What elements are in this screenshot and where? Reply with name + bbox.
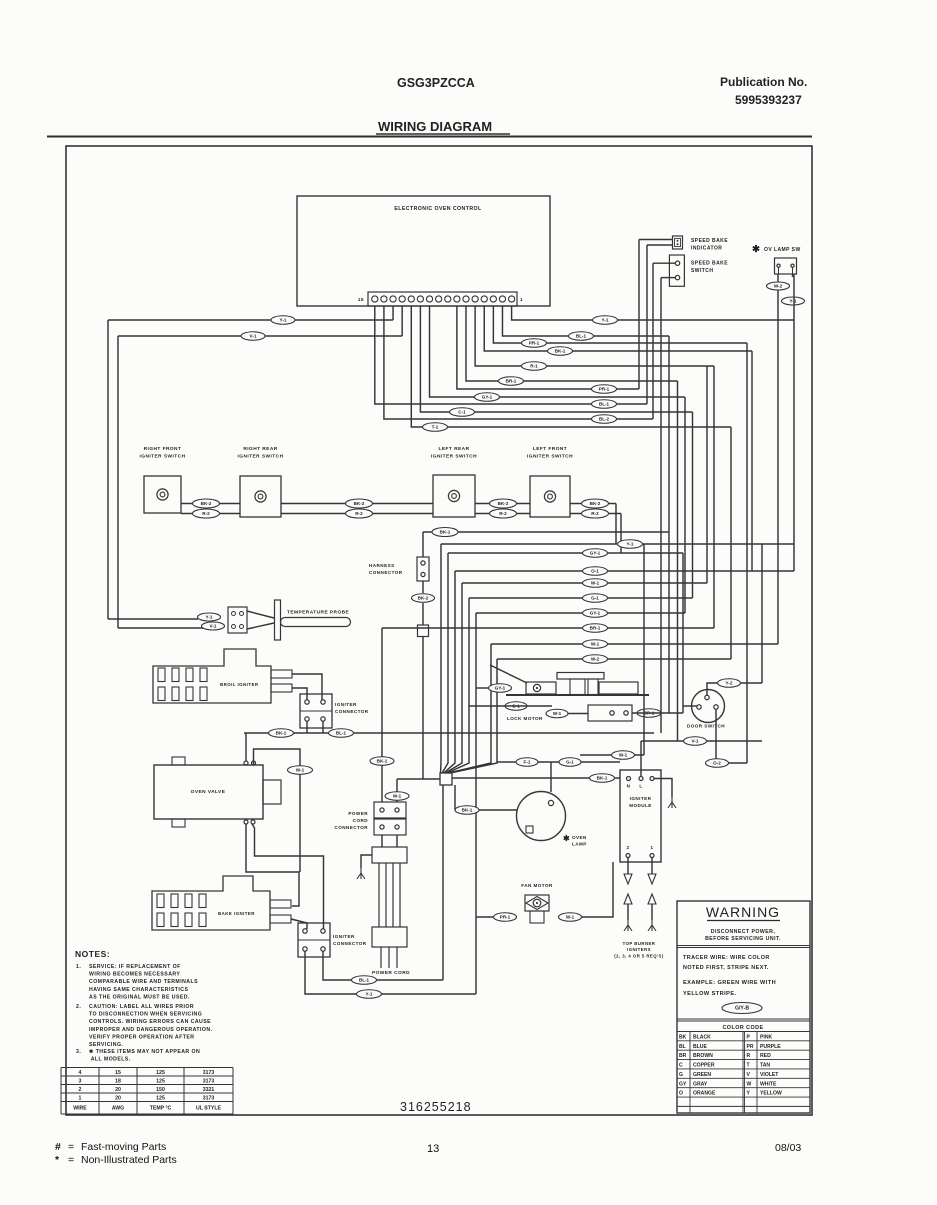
wire label W-1 middle (583, 579, 608, 588)
bake igniter element slots (157, 894, 206, 927)
left rear igniter switch (433, 475, 475, 517)
svg-text:W-1: W-1 (296, 768, 305, 773)
wire GY-1 from pin (430, 306, 685, 397)
broil igniter element slots (158, 668, 207, 701)
spark output 1 arrow up (648, 894, 656, 904)
wire broil terminal 2 (292, 688, 307, 700)
wire label C-1 (450, 408, 475, 417)
wire G-1 lamp run (497, 761, 620, 763)
svg-text:NOTES:: NOTES: (75, 949, 110, 959)
wire W-1 lower run (580, 754, 644, 756)
wire label Y-2 door (718, 679, 741, 688)
broil igniter terminal 2 (271, 684, 292, 692)
svg-text:PR-1: PR-1 (529, 341, 540, 346)
oven lamp contact (548, 800, 553, 805)
lock motor body M1 (526, 682, 556, 694)
door switch pin right (714, 705, 718, 709)
wire label PR-1 fan (494, 913, 517, 922)
left front igniter switch contact (544, 491, 555, 502)
wire Y-2 vertical mid (761, 544, 763, 683)
wire label BK-1 (548, 347, 573, 356)
electronic oven control U1 (297, 196, 550, 306)
svg-text:1: 1 (520, 297, 523, 303)
wire W-2 from lamp switch (777, 274, 779, 644)
temperature probe taper (247, 611, 274, 618)
module pin 1 (650, 854, 654, 858)
svg-text:BR-1: BR-1 (506, 379, 517, 384)
svg-text:GY-1: GY-1 (482, 395, 493, 400)
lock switch lower (588, 705, 632, 721)
svg-text:W-1: W-1 (393, 794, 402, 799)
wire label PR-1 (522, 339, 547, 348)
lamp switch pin left (777, 264, 780, 267)
svg-text:15: 15 (358, 297, 364, 303)
wire label Y-1 (782, 297, 805, 305)
temperature probe shaft (281, 618, 351, 627)
svg-text:W-1: W-1 (591, 642, 600, 647)
spark output 1 arrow down (648, 874, 656, 884)
wire GY long drop (475, 613, 477, 994)
wire BK-2 bus segment 2 (281, 503, 433, 505)
wire broil terminal 1 (292, 674, 322, 700)
svg-text:OV LAMP SW: OV LAMP SW (764, 247, 801, 253)
fan motor mount (530, 911, 544, 923)
wire PR-1 from pin (493, 306, 747, 343)
svg-text:Y-1: Y-1 (366, 992, 373, 997)
wire Y-1 middle run (441, 543, 794, 545)
wire R-1 from pin (475, 306, 714, 366)
wire BK below junction box (442, 785, 444, 980)
right front igniter switch (144, 476, 181, 513)
svg-text:T-1: T-1 (432, 425, 439, 430)
wire label V-1 probe (202, 622, 225, 630)
oven valve bottom tab (172, 819, 185, 827)
svg-text:DISCONNECT POWER,BEFORE SERV: DISCONNECT POWER,BEFORE SERVICING UNIT. (705, 929, 781, 942)
wire BK-2 bus segment 4 (570, 503, 616, 505)
lock motor shaft dot (536, 687, 538, 689)
warning separator (677, 945, 810, 947)
svg-text:W-1: W-1 (591, 581, 600, 586)
oven lamp base detail (526, 826, 533, 833)
wire label R-2 (490, 509, 517, 518)
warning box (677, 901, 810, 1113)
fan motor M2 (525, 895, 549, 911)
wire W-1 lock stub (568, 713, 588, 715)
power connector pin 1 (380, 808, 384, 812)
svg-text:Y-1: Y-1 (627, 542, 634, 547)
EOC connector strip P1 (368, 292, 517, 306)
wire label BR-1 middle (583, 624, 608, 633)
wire switch1 drop (652, 263, 654, 419)
svg-text:Y-1: Y-1 (602, 318, 609, 323)
svg-text:F-1: F-1 (524, 760, 531, 765)
wire BK-1 bottom bus (244, 732, 654, 734)
svg-text:✱: ✱ (752, 244, 761, 255)
harness connector pin B (421, 572, 425, 576)
wire valve bottom 1 (246, 824, 299, 906)
heading underline rule (47, 136, 812, 138)
wire label BK-2 (490, 499, 517, 508)
svg-text:2: 2 (627, 845, 630, 850)
svg-text:O-1: O-1 (591, 569, 599, 574)
bake igniter terminal 2 (270, 915, 291, 923)
color code separator (677, 1018, 810, 1020)
wire to junction square (422, 603, 424, 625)
right rear igniter switch contact (255, 491, 266, 502)
oven valve top tab (172, 757, 185, 765)
wire V-1 left vertical (117, 336, 119, 628)
svg-text:Y-2: Y-2 (726, 681, 733, 686)
igniter connector P3 pin (305, 700, 309, 704)
wire label V-1 left (241, 332, 265, 341)
lock motor support 1 (570, 679, 585, 695)
bake igniter terminal 1 (270, 900, 291, 908)
wire BR-1 middle run (382, 627, 714, 629)
lock motor base plate (506, 694, 649, 696)
wire GY-1 vertical (684, 397, 686, 613)
svg-text:#=Fast-moving Parts*=Non-Illus: #=Fast-moving Parts*=Non-Illustrated Par… (55, 1141, 177, 1166)
svg-text:BK-2: BK-2 (354, 501, 365, 506)
svg-text:BR-1: BR-1 (590, 626, 601, 631)
svg-text:Y-1: Y-1 (790, 299, 797, 304)
wire R-2 bus segment 4 (570, 513, 621, 515)
wire Y-1 from pin (512, 306, 794, 320)
lock motor cam arm (490, 665, 527, 683)
svg-text:N: N (627, 784, 631, 789)
wire Y-1 from lamp switch (792, 274, 794, 277)
wire label BL-2 (592, 415, 617, 424)
wire Y-1 pin drop (392, 306, 394, 320)
igniter connector P3 midline (300, 710, 332, 712)
wire label O-1 middle (583, 567, 608, 576)
svg-text:BROIL IGNITER: BROIL IGNITER (220, 682, 259, 687)
svg-text:BK-2: BK-2 (498, 501, 509, 506)
wire Y-1 vertical right (793, 274, 795, 571)
wire fan motor right (582, 862, 613, 917)
wire label W-2 (767, 282, 790, 290)
wire BK-1 lamp feed (455, 809, 517, 811)
wire valve bottom 2 (252, 824, 324, 929)
module pin L (639, 777, 643, 781)
svg-text:W-2: W-2 (591, 657, 600, 662)
left front igniter switch (530, 476, 570, 517)
wire spark output 1 upper (651, 858, 653, 875)
spark output 2 arrow down (624, 874, 632, 884)
lock motor support 2 (588, 679, 598, 695)
wire label BK-1 module (590, 774, 615, 783)
svg-text:GSG3PZCCA: GSG3PZCCA (397, 76, 475, 90)
module pin 2 (626, 854, 630, 858)
wire PR indicator drop (638, 240, 640, 390)
wire spark output 2 upper (627, 858, 629, 875)
svg-text:WARNING: WARNING (706, 904, 780, 920)
wire PR-1 vertical right (746, 343, 748, 763)
wire Y-1 to left (108, 319, 393, 321)
wire V-1 to probe (118, 627, 204, 629)
svg-text:BL-1: BL-1 (576, 334, 587, 339)
svg-text:2.: 2. (76, 1004, 81, 1010)
wire Y-2 up right (741, 682, 762, 684)
wire R-1 vertical (713, 366, 715, 628)
igniter connector P3 (300, 694, 332, 728)
svg-text:WIRING DIAGRAM: WIRING DIAGRAM (378, 119, 492, 134)
wire O-1 middle run (455, 570, 794, 572)
left rear igniter switch contact (448, 490, 459, 501)
svg-text:L: L (639, 784, 642, 789)
temperature probe flange (275, 600, 281, 640)
svg-text:BK-1: BK-1 (462, 808, 473, 813)
wire label example G/Y-B (722, 1003, 762, 1014)
wire spark output 1 lower (651, 904, 653, 920)
svg-text:COLOR CODE: COLOR CODE (722, 1025, 763, 1031)
svg-text:R-2: R-2 (591, 511, 599, 516)
wire BL-1 from pin (375, 306, 647, 404)
wire to switch contact 2 (661, 277, 675, 279)
EOC connector pins 15..1 (372, 296, 515, 302)
svg-text:DOOR SWITCH: DOOR SWITCH (687, 724, 725, 729)
temperature probe connector pins (232, 612, 244, 629)
wire label BL-1 bus (329, 729, 354, 738)
svg-text:BK-2: BK-2 (201, 501, 212, 506)
speed bake switch S1 (669, 255, 684, 286)
igniter connector P3 pin (321, 700, 325, 704)
wire GY-1 middle run (448, 552, 683, 554)
wire label F-1 lamp (516, 758, 538, 767)
power cord strain relief (372, 847, 407, 863)
wire label R-2 (582, 509, 609, 518)
wire R-2 bus segment 1 (181, 513, 240, 515)
wire label Y-1 (593, 316, 618, 325)
wire BK-1 to power connector (381, 628, 383, 802)
wire lamp to G line (550, 762, 552, 792)
wire W-1 middle run (462, 582, 707, 584)
wire label GY-1 lock (489, 684, 512, 693)
wire BK-1 vertical right (751, 351, 753, 571)
svg-text:5995393237: 5995393237 (735, 93, 802, 107)
wire BK-1 from pin (484, 306, 752, 351)
svg-text:BK-1: BK-1 (440, 530, 451, 535)
wire spark output 2 lower (627, 904, 629, 920)
svg-text:GY-1: GY-1 (495, 686, 506, 691)
wire Y-1 left vertical (107, 320, 109, 619)
wire BR-1 from pin (466, 306, 678, 381)
wire label O-2 door (706, 759, 729, 768)
svg-text:OVEN VALVE: OVEN VALVE (191, 789, 226, 795)
fan motor hub (533, 899, 541, 907)
svg-text:BL-2: BL-2 (599, 417, 610, 422)
harness connector pin A (421, 561, 425, 565)
wire BL to indicator (647, 244, 673, 246)
wire label Y-1 probe (198, 613, 221, 621)
wire bundle drop 5 (447, 598, 469, 773)
wire label BK-1 mid (432, 528, 458, 537)
speed bake indicator DS1 (673, 236, 683, 249)
igniter connector P3 pin (305, 717, 309, 721)
temperature probe connector (228, 607, 247, 633)
svg-text:BL-1: BL-1 (336, 731, 347, 736)
lock motor top plate (557, 673, 604, 680)
wire label BR-1 lock (637, 709, 661, 718)
wire door left pin (683, 705, 697, 707)
wire BK-1 mid (423, 531, 669, 533)
oven valve terminal bottom 1 (244, 820, 248, 824)
wire BK-2 bus end drop (615, 504, 617, 545)
wire below harness connector (422, 581, 424, 593)
wire door right pin down (716, 709, 747, 763)
wire C-1 vertical (692, 412, 694, 598)
diagram outer border (66, 146, 812, 1115)
svg-text:GY-1: GY-1 (590, 551, 601, 556)
svg-text:BK-1: BK-1 (276, 731, 287, 736)
wire to chassis ground (361, 855, 372, 868)
svg-text:Y-1: Y-1 (206, 615, 213, 620)
wire label W-1 valve (288, 766, 313, 775)
wire label Y-1 left (271, 316, 295, 325)
igniter connector P4 pin (321, 929, 325, 933)
svg-text:BL-1: BL-1 (359, 978, 370, 983)
lamp switch inner line (778, 267, 780, 274)
wire fan motor left (476, 916, 493, 918)
svg-text:PR-1: PR-1 (500, 915, 511, 920)
wire below junction J1 (422, 637, 424, 780)
svg-text:Publication No.: Publication No. (720, 75, 807, 89)
lamp switch pin right (791, 264, 794, 267)
igniter module U2 (620, 770, 661, 862)
wire label W-2 middle (583, 655, 608, 664)
igniter connector P4 (298, 923, 330, 957)
svg-text:1.: 1. (76, 964, 81, 970)
svg-text:13: 13 (427, 1143, 439, 1155)
wire module aux to ground (654, 779, 672, 798)
wire GY-1 lock stub (476, 687, 489, 689)
igniter connector P4 pin (303, 929, 307, 933)
module ground (668, 797, 676, 808)
wire label R-2 (193, 509, 220, 518)
svg-text:FAN MOTOR: FAN MOTOR (521, 883, 553, 888)
wire label BK-1 power (370, 757, 394, 766)
module pin N (627, 777, 631, 781)
svg-text:G-1: G-1 (566, 760, 574, 765)
wire BK-2 bus segment 3 (475, 503, 530, 505)
junction box J2 (440, 773, 452, 785)
wire G-1 lock stub (469, 705, 552, 707)
wire label BK-2 (193, 499, 220, 508)
wire label Y-1 bottom (357, 990, 382, 999)
wire bake terminal 2 (291, 919, 307, 929)
svg-text:R-2: R-2 (355, 511, 363, 516)
wire label G-1 lamp (559, 758, 581, 767)
svg-text:BK-1: BK-1 (597, 776, 608, 781)
svg-text:BL-1: BL-1 (599, 402, 610, 407)
wire to switch contact 1 (653, 262, 675, 264)
wire connector link 1 (381, 835, 383, 847)
wire label BR-1 (499, 377, 524, 386)
svg-text:V-1: V-1 (692, 739, 699, 744)
wire label BK-2 below harness (412, 594, 435, 603)
wire label T-1 (423, 423, 448, 432)
wire W-1 from valve (254, 749, 301, 872)
wire W-1 middle run (491, 643, 778, 645)
power cord conductors (379, 863, 400, 927)
wire bundle drop 7 (450, 659, 497, 773)
wire bundle drop 1 (440, 544, 443, 773)
speed bake indicator inner (675, 238, 681, 246)
wire label GY-1 middle (583, 549, 608, 558)
wire label W-1 lock (546, 709, 568, 718)
wire label BK-1 lamp (455, 806, 479, 815)
broil igniter terminal 1 (271, 670, 292, 678)
wire to harness connector (422, 532, 424, 557)
wire switch2 drop (660, 278, 662, 733)
power connector pin 3 (380, 825, 384, 829)
wire label W-1 lower (612, 751, 635, 760)
wire from P3 to BK bus (306, 721, 308, 733)
wire label BL-1 bottom (352, 976, 377, 985)
svg-text:POWER CORD: POWER CORD (372, 970, 410, 976)
wire bundle drop 6 (449, 644, 492, 773)
svg-text:✱: ✱ (563, 834, 570, 843)
svg-text:R-2: R-2 (499, 511, 507, 516)
fan motor rotor diamond (526, 897, 548, 910)
wire T-1 from pin (411, 306, 731, 427)
wire R-1 vertical b (706, 366, 708, 583)
svg-text:G-1: G-1 (591, 596, 599, 601)
wire label Y-1 middle (618, 540, 643, 549)
svg-text:R-2: R-2 (202, 511, 210, 516)
svg-text:BAKE IGNITER: BAKE IGNITER (218, 911, 255, 916)
wire BR-1 vertical (677, 381, 679, 741)
wire L pin up (640, 741, 642, 777)
wire BL-1 from pin (502, 306, 669, 336)
svg-text:3.: 3. (76, 1049, 81, 1055)
oven valve terminal top 1 (244, 761, 248, 765)
wire bundle drop 4 (445, 583, 462, 773)
bake igniter outline (152, 876, 270, 930)
wire label W-1 fan (559, 913, 582, 922)
svg-text:OVENLAMP: OVENLAMP (572, 835, 587, 847)
wire label BK-2 (346, 499, 373, 508)
lock switch pin 1 (610, 711, 614, 715)
warning underline (707, 920, 780, 922)
wire label G-1 middle (583, 594, 608, 603)
spark output 1 electrode (648, 920, 656, 931)
wire R-2 bus segment 2 (281, 513, 433, 515)
speed bake indicator dots (677, 240, 679, 242)
wire label BK-1 bus (269, 729, 294, 738)
speed bake switch contact 2 (675, 275, 679, 279)
wire label PR-1 (592, 385, 617, 394)
svg-text:C-1: C-1 (458, 410, 466, 415)
right rear igniter switch (240, 476, 281, 517)
oven valve (154, 765, 263, 819)
door switch pin left (697, 705, 701, 709)
wire label GY-1 middle (583, 609, 608, 618)
junction J1 (418, 625, 429, 637)
wire G-1 middle run (469, 597, 693, 599)
speed bake switch contact 1 (675, 261, 679, 265)
svg-text:W-1: W-1 (566, 915, 575, 920)
spark output 2 electrode (624, 920, 632, 931)
wire R-2 bus end drop (620, 514, 622, 554)
wire C-1 from pin (420, 306, 692, 412)
svg-text:W-2: W-2 (774, 284, 783, 289)
svg-text:1: 1 (651, 845, 654, 850)
wire PR-1 from pin (457, 306, 639, 389)
svg-text:LOCK MOTOR: LOCK MOTOR (507, 716, 543, 721)
broil igniter outline (153, 649, 271, 703)
svg-text:BK-2: BK-2 (418, 596, 429, 601)
chassis ground symbol (357, 868, 365, 879)
